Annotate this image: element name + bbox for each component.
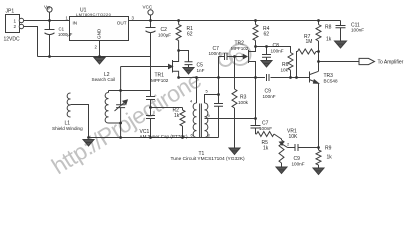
node output connector to amplifier bbox=[359, 58, 375, 64]
node VG supply circle bbox=[47, 7, 52, 12]
capacitor C11 bbox=[336, 21, 346, 42]
node VCC supply circle bbox=[148, 10, 153, 15]
capacitor C5 bbox=[185, 62, 193, 68]
wire output line bbox=[319, 61, 360, 63]
svg-text:AM Tuner Cap (PT70K): AM Tuner Cap (PT70K) bbox=[140, 134, 188, 139]
wire T1 tap to C10 node bbox=[206, 118, 256, 120]
svg-text:Tune Circuit YMCS17104 (YG32K): Tune Circuit YMCS17104 (YG32K) bbox=[171, 156, 246, 162]
ground C11 bbox=[335, 41, 347, 48]
svg-text:100nF: 100nF bbox=[292, 161, 305, 166]
ground R3 bbox=[229, 148, 240, 155]
wire wiper to emitter node bbox=[288, 147, 319, 149]
ground U1 bbox=[94, 58, 105, 65]
svg-text:JP1: JP1 bbox=[6, 9, 15, 15]
capacitor C9b bbox=[295, 144, 298, 151]
wire U1 gnd pin2 bbox=[99, 41, 101, 57]
svg-text:BC548: BC548 bbox=[324, 79, 338, 84]
svg-text:1M: 1M bbox=[306, 39, 313, 45]
ground C8 bbox=[261, 61, 272, 68]
svg-text:2: 2 bbox=[14, 24, 17, 29]
transformer T1 secondary bbox=[205, 103, 208, 138]
transistor TR3 bbox=[310, 71, 319, 82]
svg-text:10k: 10k bbox=[281, 68, 289, 73]
svg-text:100nF: 100nF bbox=[209, 51, 222, 56]
wire JP1 pin2 to ground rail bbox=[24, 27, 38, 57]
svg-text:1nF: 1nF bbox=[197, 68, 205, 73]
svg-text:10K: 10K bbox=[289, 134, 299, 140]
transformer T1 core bbox=[200, 104, 202, 138]
svg-text:Vg: Vg bbox=[44, 5, 50, 10]
svg-text:MPF102: MPF102 bbox=[231, 46, 249, 51]
watermark diagonal url text bbox=[47, 67, 206, 180]
svg-text:OUT: OUT bbox=[117, 21, 127, 26]
transistor TR2 bbox=[249, 47, 256, 78]
svg-text:1k: 1k bbox=[327, 155, 333, 161]
wire ground rail bbox=[38, 56, 151, 58]
wire T1 primary top drop bbox=[196, 78, 198, 104]
wire L2 bottom stub bbox=[109, 122, 121, 124]
wiper arrow VR1 bbox=[282, 144, 288, 148]
capacitor C4 bbox=[146, 108, 155, 138]
wire TR1 drain node to C5 bbox=[179, 51, 189, 62]
wire L1 tap to ground node bbox=[71, 105, 89, 138]
ground C5 bbox=[183, 68, 194, 75]
svg-text:100nF: 100nF bbox=[263, 94, 276, 99]
svg-text:R8: R8 bbox=[325, 25, 332, 31]
ground VR1 bbox=[276, 167, 287, 174]
wire tank top bbox=[109, 90, 151, 92]
svg-text:100µF: 100µF bbox=[158, 33, 171, 38]
svg-text:1000µF: 1000µF bbox=[58, 32, 73, 37]
variable capacitor VC1 bbox=[116, 91, 125, 138]
transistor TR1 bbox=[121, 51, 179, 78]
watermark circled-e logo bbox=[219, 44, 251, 66]
connector JP1 bbox=[6, 15, 20, 33]
capacitor C7 bbox=[219, 53, 244, 60]
wire TR2 source down bbox=[255, 62, 257, 119]
ground node bottom bbox=[83, 140, 94, 147]
svg-text:100k: 100k bbox=[238, 100, 249, 105]
resistor R5 bbox=[256, 131, 275, 137]
svg-text:100nF: 100nF bbox=[271, 48, 284, 53]
capacitor C9 (series in rail) bbox=[267, 74, 270, 81]
wire T1 tap stub bbox=[205, 118, 207, 120]
wire source rail bbox=[179, 77, 310, 79]
svg-text:C1: C1 bbox=[59, 27, 65, 32]
resistor R1 bbox=[176, 21, 181, 51]
svg-text:VCC: VCC bbox=[143, 5, 153, 10]
wire T1 secondary top to C6 node bbox=[205, 95, 219, 104]
svg-text:Shield Winding: Shield Winding bbox=[52, 126, 83, 131]
svg-text:62: 62 bbox=[264, 32, 270, 38]
svg-text:100nF: 100nF bbox=[351, 28, 364, 33]
svg-text:LM7809C/TO220: LM7809C/TO220 bbox=[76, 12, 112, 17]
resistor R9 bbox=[316, 148, 321, 169]
resistor R6 bbox=[288, 53, 293, 78]
wire mid node to R2 bbox=[151, 107, 183, 109]
ground R9 bbox=[313, 168, 324, 175]
capacitor C2 bbox=[146, 21, 156, 91]
svg-text:12VDC: 12VDC bbox=[4, 37, 21, 43]
wire C7 branch vertical bbox=[218, 57, 220, 95]
capacitor C6 bbox=[214, 95, 223, 138]
potentiometer VR1 bbox=[274, 134, 284, 167]
svg-text:1: 1 bbox=[14, 19, 17, 24]
svg-text:100nF: 100nF bbox=[259, 126, 272, 131]
wire bottom ground run bbox=[89, 137, 219, 139]
wire TR1 gate drop to tank bbox=[120, 67, 122, 91]
svg-text:To Amplifier: To Amplifier bbox=[378, 60, 404, 66]
resistor R7 bbox=[297, 49, 319, 78]
wire TR2 drain node to R6 bbox=[256, 47, 291, 53]
resistor R8 bbox=[316, 21, 321, 72]
capacitor C10 bbox=[251, 119, 261, 132]
resistor R2 bbox=[180, 108, 185, 138]
svg-text:1k: 1k bbox=[174, 113, 180, 119]
capacitor C8 bbox=[262, 47, 271, 61]
transformer T1 primary bbox=[193, 103, 196, 138]
svg-text:GND: GND bbox=[97, 28, 102, 39]
svg-text:IN: IN bbox=[73, 21, 78, 26]
capacitor C3 bbox=[146, 91, 155, 108]
resistor R4 bbox=[253, 21, 258, 47]
resistor R3 bbox=[232, 57, 237, 149]
inductor L2 bbox=[105, 91, 108, 124]
op-amp U1 regulator box bbox=[70, 17, 129, 41]
inductor L1 bbox=[67, 93, 70, 117]
svg-text:MPF102: MPF102 bbox=[151, 78, 169, 83]
svg-text:R9: R9 bbox=[325, 146, 332, 152]
svg-text:62: 62 bbox=[187, 32, 193, 38]
capacitor C1 bbox=[45, 21, 55, 57]
svg-text:Search Coil: Search Coil bbox=[92, 77, 116, 82]
wire top VCC rail bbox=[24, 20, 341, 22]
svg-text:1k: 1k bbox=[263, 146, 269, 152]
wire U1 input bbox=[55, 20, 70, 22]
svg-text:1k: 1k bbox=[326, 37, 332, 43]
